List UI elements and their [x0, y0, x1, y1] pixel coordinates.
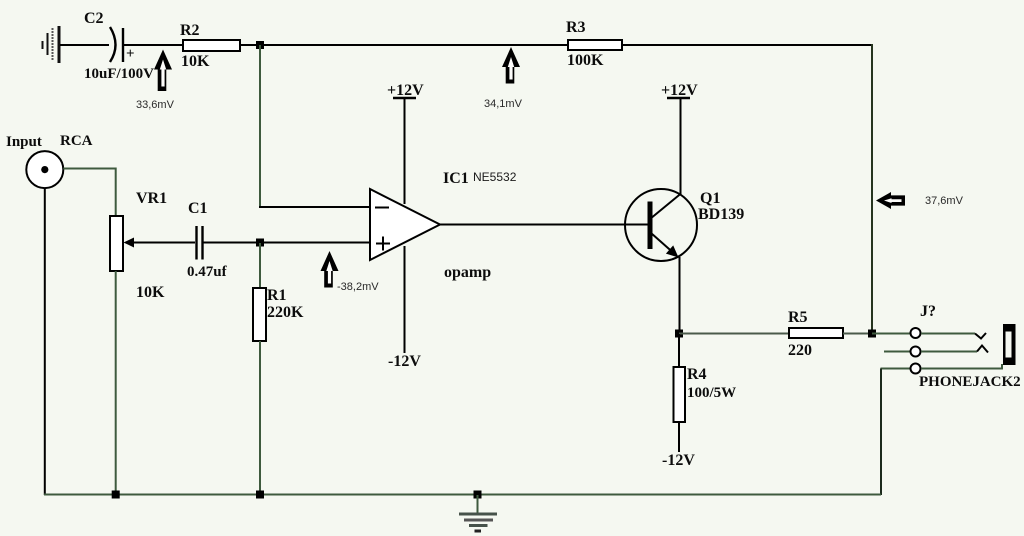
svg-text:BD139: BD139	[698, 206, 744, 223]
svg-text:Input: Input	[6, 134, 42, 150]
svg-text:IC1: IC1	[443, 170, 469, 187]
resistor R4	[674, 334, 737, 422]
svg-text:R5: R5	[788, 309, 808, 326]
wire node C to R5	[679, 333, 789, 335]
potentiometer VR1	[110, 190, 167, 301]
ground (input side, sideways)	[43, 26, 60, 63]
svg-text:RCA: RCA	[60, 133, 93, 149]
power +12V (Q1 collector)	[661, 82, 698, 194]
capacitor C1	[187, 200, 228, 280]
svg-text:34,1mV: 34,1mV	[484, 98, 523, 110]
svg-text:220K: 220K	[267, 304, 304, 321]
probe arrow -38,2mV	[321, 251, 380, 293]
svg-text:R3: R3	[566, 19, 586, 36]
op-amp U1 (IC1 NE5532)	[370, 189, 440, 260]
svg-text:-38,2mV: -38,2mV	[337, 281, 379, 293]
wire bottom rail	[44, 494, 881, 496]
svg-text:-12V: -12V	[662, 452, 695, 469]
svg-text:10K: 10K	[136, 284, 165, 301]
pin 3 (sleeve)	[881, 368, 912, 370]
wire RCA to VR1	[63, 169, 115, 217]
svg-text:PHONEJACK2: PHONEJACK2	[919, 374, 1021, 390]
wire C2 to R2	[124, 44, 183, 46]
svg-text:-12V: -12V	[388, 353, 421, 370]
probe arrow 34,1mV	[484, 47, 523, 110]
node D (feedback / jack tip)	[868, 330, 876, 338]
power +12V (op-amp)	[387, 82, 424, 204]
svg-text:100K: 100K	[567, 52, 604, 69]
svg-text:J?: J?	[920, 303, 936, 320]
resistor R2	[180, 22, 240, 70]
node C (emitter / R4 / R5)	[675, 330, 683, 338]
svg-text:33,6mV: 33,6mV	[136, 99, 175, 111]
power -12V (R4)	[662, 422, 695, 469]
wire ground to C2	[60, 44, 109, 46]
svg-text:+12V: +12V	[387, 82, 424, 99]
svg-text:10uF/100V: 10uF/100V	[84, 66, 154, 82]
wire node B to R1	[259, 243, 261, 289]
svg-text:C1: C1	[188, 200, 208, 217]
wire VR1 bottom to bottom rail	[115, 271, 117, 495]
svg-text:+12V: +12V	[661, 82, 698, 99]
wire C1 to non-inverting input	[203, 242, 371, 244]
svg-text:10K: 10K	[181, 53, 210, 70]
resistor R5	[788, 309, 843, 359]
svg-text:NE5532: NE5532	[473, 170, 517, 184]
wire node A down to inverting input	[259, 45, 261, 207]
svg-text:C2: C2	[84, 10, 104, 27]
probe arrow 33,6mV	[136, 50, 175, 112]
svg-text:+: +	[126, 46, 135, 62]
svg-text:Q1: Q1	[700, 190, 720, 207]
connector RCA input	[6, 133, 93, 188]
wire R5 to node D	[843, 333, 872, 335]
pin 2 (ring)	[884, 351, 911, 353]
svg-text:R4: R4	[687, 366, 707, 383]
wire Q1 emitter down	[679, 257, 681, 334]
wire node D to jack pin1	[872, 333, 911, 335]
wire jack sleeve down to bottom rail	[880, 369, 882, 496]
wire wiper to C1	[132, 242, 195, 244]
wire RCA down to bottom rail	[44, 188, 46, 495]
connector J? PHONEJACK2	[881, 303, 1021, 390]
svg-text:VR1: VR1	[136, 190, 167, 207]
resistor R1	[253, 287, 304, 341]
wire R3 to right corner	[622, 44, 872, 46]
wire R1 to bottom rail	[259, 341, 261, 495]
pin 1 (tip)	[911, 328, 921, 338]
svg-text:opamp: opamp	[444, 264, 491, 281]
probe arrow 37,6mV (left)	[876, 192, 964, 209]
svg-text:220: 220	[788, 342, 812, 359]
wire op-amp output to Q1 base	[440, 224, 648, 226]
node E (VR1/bottom)	[112, 491, 120, 499]
svg-text:0.47uf: 0.47uf	[187, 264, 228, 280]
wire inverting input	[259, 206, 371, 208]
node F (R1/bottom)	[256, 491, 264, 499]
jack body symbol	[1003, 324, 1016, 365]
svg-text:100/5W: 100/5W	[687, 385, 736, 401]
node B (+ input / R1)	[256, 239, 264, 247]
resistor R3	[566, 19, 622, 69]
ground (bottom)	[459, 495, 497, 531]
svg-text:R2: R2	[180, 22, 200, 39]
wire R2 to R3	[240, 44, 568, 46]
node G (ground/bottom)	[474, 491, 482, 499]
wire right vertical feedback	[871, 44, 873, 333]
svg-text:37,6mV: 37,6mV	[925, 195, 964, 207]
transistor Q1	[625, 189, 697, 261]
power -12V (op-amp)	[388, 246, 421, 370]
svg-text:R1: R1	[267, 287, 287, 304]
node A (R2 output)	[256, 41, 264, 49]
capacitor C2	[110, 27, 135, 62]
